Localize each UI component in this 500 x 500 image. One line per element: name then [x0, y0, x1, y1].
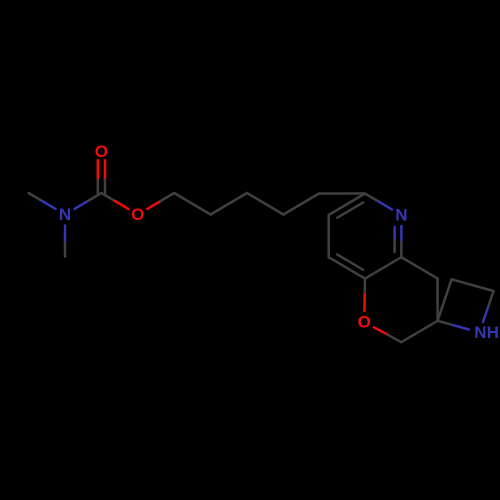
svg-text:N: N: [395, 206, 407, 225]
svg-text:O: O: [95, 142, 108, 161]
svg-text:O: O: [131, 205, 144, 224]
svg-text:N: N: [59, 205, 71, 224]
svg-text:NH: NH: [474, 323, 499, 342]
svg-text:O: O: [358, 313, 371, 332]
